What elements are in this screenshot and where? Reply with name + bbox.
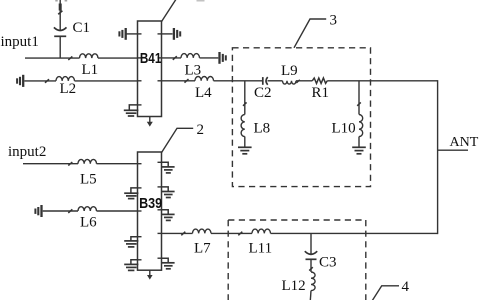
wire ANT stub [438,149,468,151]
resistor R1 [312,78,437,83]
inductor L10 (shunt) [357,81,362,147]
filter block B41 [138,21,162,117]
svg-text:L12: L12 [282,278,306,294]
svg-text:4: 4 [402,279,410,295]
inductor L11 [252,229,270,233]
wire L4 line [162,79,263,83]
svg-text:L9: L9 [281,63,298,79]
svg-text:L6: L6 [80,214,97,230]
inductor L3 [181,54,199,58]
capacitor C3 [305,233,317,272]
inductor stub top of C1 branch [55,0,67,30]
leader line to label 3 [294,19,326,48]
svg-text:C2: C2 [254,85,272,101]
svg-text:L4: L4 [195,85,212,101]
leader line to label 2 [162,128,194,152]
ground bottom-left of B41 [124,105,139,116]
wire pin stubs of B41 [138,34,162,105]
svg-text:ANT: ANT [450,135,479,150]
inductor L8 (shunt) [241,81,247,147]
pin arrow bottom of B41 [147,117,153,127]
wire input1 line [25,56,138,60]
wire pin stubs of B39 [138,162,162,259]
ground left of B39 lower [124,260,138,271]
ground (rotated) at L3 end [220,52,226,64]
wire ANT vertical [437,80,439,234]
svg-text:B39: B39 [139,195,162,212]
svg-text:L11: L11 [249,240,273,256]
inductor L4 [195,77,213,81]
svg-text:L10: L10 [332,120,356,136]
ground under L8 [238,147,252,154]
svg-text:input2: input2 [8,144,46,160]
leader line to label 4 [372,286,399,300]
inductor L6 [78,207,96,211]
inductor L2 [56,77,74,81]
ground left of B39 upper [124,188,138,199]
ground right of B39 fourth [162,258,175,269]
leader line to label 1 (cut off at top) [162,0,205,22]
ground right of B39 first [162,162,175,173]
svg-text:L1: L1 [82,62,99,78]
ground (rotated) left of B41 [119,28,137,40]
dashed box 3 [232,48,370,187]
dashed box 4 [228,220,366,300]
svg-text:L8: L8 [254,120,271,136]
svg-text:L7: L7 [194,240,211,256]
ground under L10 [352,147,366,154]
ground (rotated) at L2 input [17,75,23,87]
wire L6 line [43,209,138,213]
svg-text:C3: C3 [319,254,337,270]
inductor L12 (shunt) [309,267,315,300]
svg-text:3: 3 [330,12,338,28]
svg-text:input1: input1 [1,34,39,50]
filter block B39 [138,152,162,270]
wire bottom line L7/L11 [162,232,438,236]
svg-text:C1: C1 [73,20,91,36]
svg-text:L5: L5 [80,171,97,187]
ground (rotated) right of B41 [162,28,181,40]
ground left of B39 middle [124,237,138,247]
inductor L9 [283,80,313,84]
svg-text:2: 2 [197,122,205,138]
ground (rotated) at L6 input [35,205,41,217]
svg-text:R1: R1 [312,85,330,101]
wire L2 line [24,79,137,83]
inductor L1 [80,54,98,58]
capacitor C2 [263,77,283,85]
ground right of B39 second [162,187,175,198]
svg-text:B41: B41 [140,50,162,67]
wire L5 line [23,162,138,166]
pin arrow bottom of B39 [147,270,153,279]
wire L3 line [162,56,219,60]
svg-text:L2: L2 [60,81,77,97]
inductor L5 [78,159,96,163]
capacitor C1 [54,27,67,58]
ground right of B39 third [162,210,175,221]
inductor L7 [193,229,211,233]
